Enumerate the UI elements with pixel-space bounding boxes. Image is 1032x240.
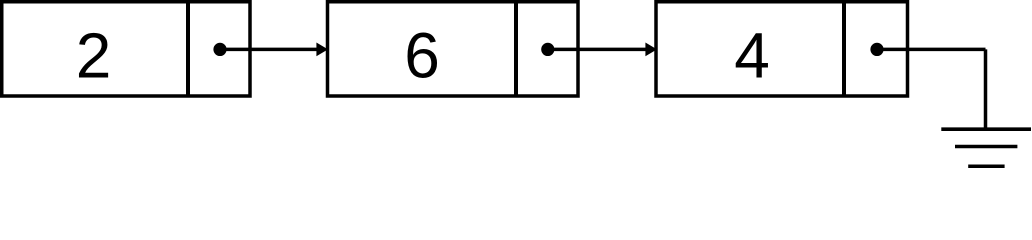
node 2 pointer dot: [541, 43, 554, 56]
wire ground vertical: [984, 49, 988, 129]
ground bar 2: [955, 145, 1017, 149]
svg-text:4: 4: [734, 20, 770, 92]
wire arrow node2 to node3: [548, 43, 657, 57]
node 2 box: [328, 2, 579, 96]
wire node3 to ground horizontal: [877, 48, 986, 52]
node 3 pointer dot: [870, 43, 883, 56]
svg-text:6: 6: [404, 20, 440, 92]
node 1 box: [2, 2, 250, 96]
ground bar 1: [941, 127, 1031, 131]
svg-text:2: 2: [76, 20, 112, 92]
node 3 divider: [842, 2, 846, 96]
node 1 pointer dot: [213, 43, 226, 56]
ground bar 3: [968, 165, 1004, 169]
node 2 divider: [514, 2, 518, 96]
node 1 divider: [186, 2, 190, 96]
wire arrow node1 to node2: [220, 43, 328, 57]
node 3 box: [656, 2, 908, 96]
